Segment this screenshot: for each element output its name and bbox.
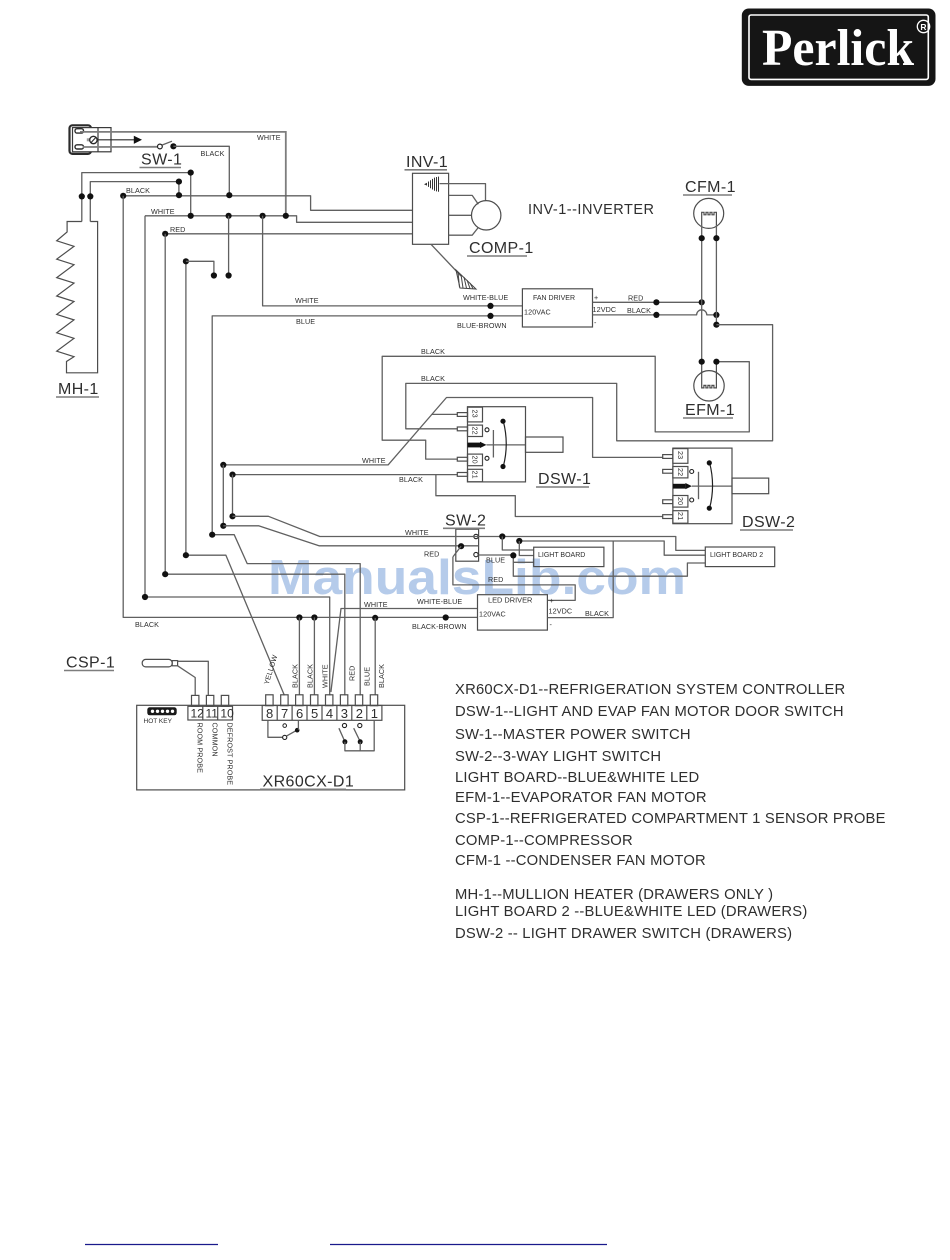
svg-text:DSW-1: DSW-1 <box>538 471 591 488</box>
svg-text:BLACK: BLACK <box>421 347 445 356</box>
wire long vertical red feed to controller pin 3 <box>165 234 345 696</box>
internal compressor switch pins 3-2-1 <box>339 720 374 751</box>
legend text <box>455 682 886 942</box>
svg-text:CFM-1 --CONDENSER FAN MOTOR: CFM-1 --CONDENSER FAN MOTOR <box>455 853 706 869</box>
svg-text:21: 21 <box>471 471 480 479</box>
sensor probe CSP-1 <box>142 659 208 695</box>
svg-text:DSW-2 -- LIGHT DRAWER SWITCH (: DSW-2 -- LIGHT DRAWER SWITCH (DRAWERS) <box>455 926 792 942</box>
svg-text:120VAC: 120VAC <box>524 308 551 317</box>
hatched arrow from INV-1 <box>431 244 476 289</box>
svg-text:BLACK: BLACK <box>627 306 651 315</box>
svg-text:BLUE: BLUE <box>362 667 371 686</box>
svg-text:RED: RED <box>628 294 643 303</box>
svg-text:LED DRIVER: LED DRIVER <box>488 596 532 605</box>
svg-text:LIGHT BOARD--BLUE&WHITE LED: LIGHT BOARD--BLUE&WHITE LED <box>455 770 699 786</box>
light switch SW-2 <box>456 529 479 561</box>
svg-text:1: 1 <box>371 706 378 721</box>
door switch DSW-1 <box>457 407 563 482</box>
svg-text:EFM-1: EFM-1 <box>685 402 735 419</box>
svg-text:BLACK: BLACK <box>305 664 314 688</box>
internal defrost switch pins 8-7-6 <box>268 720 300 739</box>
wire INV to COMP upper <box>449 195 479 204</box>
compressor COMP-1 <box>472 201 501 230</box>
svg-text:INV-1--INVERTER: INV-1--INVERTER <box>528 202 654 218</box>
wire BLUE from SW-2 to LIGHT BOARD and LIGHT BOARD 2 <box>478 555 705 576</box>
evaporator fan motor EFM-1 <box>694 359 724 401</box>
svg-text:7: 7 <box>281 706 288 721</box>
switch lever SW-2 <box>453 546 461 557</box>
wire branch white dot down into LIGHT BOARD <box>502 537 533 551</box>
power plug P1 <box>70 125 112 154</box>
terminal block 8..1 <box>262 695 382 721</box>
wire black loop CFM node to DSW-1 pin22 <box>406 325 773 441</box>
svg-text:WHITE: WHITE <box>405 528 429 537</box>
wire BLACK fan driver to CFM with hop <box>593 310 717 315</box>
wire stub with terminal dots <box>186 261 214 275</box>
svg-text:INV-1: INV-1 <box>406 154 448 171</box>
svg-text:SW-2: SW-2 <box>445 513 486 530</box>
svg-text:DSW-2: DSW-2 <box>742 514 795 531</box>
svg-text:BLACK: BLACK <box>399 475 423 484</box>
svg-text:8: 8 <box>266 706 273 721</box>
svg-text:+: + <box>550 596 554 605</box>
svg-text:DEFROST PROBE: DEFROST PROBE <box>225 723 234 786</box>
svg-text:HOT KEY: HOT KEY <box>144 718 173 725</box>
svg-text:FAN DRIVER: FAN DRIVER <box>533 295 575 302</box>
svg-text:LIGHT BOARD 2: LIGHT BOARD 2 <box>710 552 763 559</box>
svg-text:BLACK: BLACK <box>126 186 150 195</box>
svg-text:4: 4 <box>326 706 333 721</box>
svg-text:WHITE-BLUE: WHITE-BLUE <box>463 293 508 302</box>
door switch DSW-2 <box>663 448 769 524</box>
svg-text:WHITE: WHITE <box>151 207 175 216</box>
wire WHITE bus to INV-1 <box>145 216 413 223</box>
svg-text:COMP-1: COMP-1 <box>469 240 534 257</box>
svg-text:BLACK: BLACK <box>291 664 300 688</box>
svg-text:SW-2--3-WAY LIGHT SWITCH: SW-2--3-WAY LIGHT SWITCH <box>455 749 661 765</box>
svg-text:ROOM PROBE: ROOM PROBE <box>196 723 205 774</box>
wire WHITE from node column to DSW-1 pin23 and DSW-2 pin23 <box>223 398 663 465</box>
wire LED driver minus to light boards <box>547 541 613 618</box>
wire CFM right lead down <box>715 225 717 325</box>
fan driver module <box>522 289 592 327</box>
wire BLACK from SW-1 down to black bus <box>173 146 229 195</box>
bottom link underlines <box>85 1244 218 1246</box>
wire WHITE long run to FAN DRIVER <box>263 216 523 306</box>
wire INV to COMP top <box>440 184 486 201</box>
wire link vertical pairs <box>222 465 224 526</box>
svg-text:BLACK: BLACK <box>421 374 445 383</box>
wire stub from white bus <box>228 216 230 276</box>
svg-text:WHITE: WHITE <box>364 600 388 609</box>
svg-text:12VDC: 12VDC <box>593 305 617 314</box>
svg-text:CSP-1: CSP-1 <box>66 655 115 672</box>
wire second run to LIGHT BOARD 2 <box>519 541 705 555</box>
svg-text:MH-1--MULLION HEATER (DRAWERS: MH-1--MULLION HEATER (DRAWERS ONLY ) <box>455 887 773 903</box>
wire RED into SW-2 <box>223 526 478 546</box>
ground arrow from plug <box>97 136 142 144</box>
svg-text:CFM-1: CFM-1 <box>685 179 736 196</box>
wire DSW-1 pin23 stub to diagonal <box>432 413 457 415</box>
switch SW-1 <box>158 141 177 149</box>
heater MH-1 <box>57 222 98 373</box>
svg-text:23: 23 <box>676 451 685 459</box>
wire long vertical black feed to bottom bus <box>123 196 477 618</box>
svg-text:WHITE: WHITE <box>295 296 319 305</box>
terminal block 12 11 10 <box>188 695 234 785</box>
svg-text:SW-1--MASTER POWER SWITCH: SW-1--MASTER POWER SWITCH <box>455 727 691 743</box>
svg-text:BLACK: BLACK <box>135 620 159 629</box>
svg-text:BLACK: BLACK <box>377 664 386 688</box>
wire WHITE into SW-2 and on to LIGHT BOARD 2 <box>233 516 706 550</box>
Perlick logo <box>742 9 936 86</box>
wire INV to COMP mid <box>449 214 472 216</box>
wire BLACK to DSW-1 pin21 with branch to DSW-2 pin21 <box>233 474 458 476</box>
svg-text:SW-1: SW-1 <box>141 152 182 169</box>
svg-text:MH-1: MH-1 <box>58 381 99 398</box>
svg-text:DSW-1--LIGHT AND EVAP FAN MOTO: DSW-1--LIGHT AND EVAP FAN MOTOR DOOR SWI… <box>455 704 844 720</box>
svg-text:5: 5 <box>311 706 318 721</box>
svg-text:BLUE-BROWN: BLUE-BROWN <box>457 321 507 330</box>
wire INV to COMP lower <box>449 228 479 236</box>
svg-text:BLUE: BLUE <box>486 556 505 565</box>
LED light board <box>534 547 604 566</box>
pins <box>457 413 467 417</box>
svg-text:+: + <box>594 293 598 302</box>
condenser fan motor CFM-1 <box>694 198 724 228</box>
wire white-blue link from pin4 to LED driver <box>331 609 478 693</box>
common bar + arrow <box>468 443 481 448</box>
svg-text:RED: RED <box>348 666 357 681</box>
svg-text:LIGHT BOARD 2 --BLUE&WHITE LED: LIGHT BOARD 2 --BLUE&WHITE LED (DRAWERS) <box>455 904 807 920</box>
wire long vertical white feed to controller pin 4 <box>145 216 330 696</box>
wire RED to INV-1 <box>165 233 412 235</box>
svg-text:21: 21 <box>676 512 685 520</box>
svg-text:WHITE: WHITE <box>257 133 281 142</box>
svg-text:WHITE: WHITE <box>362 456 386 465</box>
svg-text:Perlick: Perlick <box>762 20 914 77</box>
LED driver module <box>478 595 548 630</box>
svg-text:XR60CX-D1: XR60CX-D1 <box>263 774 355 791</box>
svg-text:R: R <box>920 22 926 32</box>
svg-text:23: 23 <box>471 410 480 418</box>
svg-text:20: 20 <box>471 456 480 464</box>
svg-text:BLUE: BLUE <box>296 317 315 326</box>
wire MH-1 right lead loop <box>90 182 179 222</box>
wire BLUE long run from FAN DRIVER to controller pin 2 <box>212 316 522 696</box>
svg-text:20: 20 <box>676 497 685 505</box>
svg-text:RED: RED <box>488 575 503 584</box>
svg-text:10: 10 <box>220 707 234 721</box>
svg-text:12: 12 <box>191 707 205 721</box>
wire yellow feed to controller pin 7 <box>186 261 285 695</box>
svg-text:BLACK-BROWN: BLACK-BROWN <box>412 622 467 631</box>
svg-text:RED: RED <box>424 550 439 559</box>
wire WHITE from plug to node at x=285.8 <box>80 132 286 216</box>
svg-text:3: 3 <box>341 706 348 721</box>
node dots MH leads <box>79 193 85 199</box>
svg-text:11: 11 <box>206 707 219 721</box>
svg-text:LIGHT BOARD: LIGHT BOARD <box>538 552 585 559</box>
wire plug bottom to SW-1 <box>83 146 157 148</box>
wire BLACK bus to INV-1 <box>123 196 412 211</box>
svg-text:120VAC: 120VAC <box>479 610 506 619</box>
svg-text:6: 6 <box>296 706 303 721</box>
wire MH-1 left lead loop <box>82 173 191 222</box>
svg-text:BLACK: BLACK <box>201 149 225 158</box>
wire CFM left lead down to EFM left <box>701 225 703 362</box>
plunger <box>526 437 564 452</box>
svg-text:22: 22 <box>676 468 685 476</box>
wire black loop EFM right to DSW-1 pin20 <box>382 356 749 459</box>
svg-text:12VDC: 12VDC <box>549 607 573 616</box>
svg-text:EFM-1--EVAPORATOR FAN MOTOR: EFM-1--EVAPORATOR FAN MOTOR <box>455 790 707 806</box>
svg-text:COMMON: COMMON <box>210 723 219 757</box>
svg-text:WHITE: WHITE <box>320 664 329 688</box>
svg-text:2: 2 <box>356 706 363 721</box>
wire branch down into LIGHT BOARD <box>519 541 533 556</box>
svg-text:CSP-1--REFRIGERATED COMPARTMEN: CSP-1--REFRIGERATED COMPARTMENT 1 SENSOR… <box>455 811 886 827</box>
contacts <box>485 428 489 432</box>
svg-text:22: 22 <box>471 427 480 435</box>
svg-text:RED: RED <box>170 225 185 234</box>
svg-text:XR60CX-D1--REFRIGERATION SYSTE: XR60CX-D1--REFRIGERATION SYSTEM CONTROLL… <box>455 682 845 698</box>
inverter INV-1 <box>413 173 449 244</box>
svg-text:BLACK: BLACK <box>585 609 609 618</box>
HOT KEY connector <box>144 707 177 725</box>
wire RED fan driver to CFM <box>593 301 702 303</box>
LED light board 2 <box>705 547 774 567</box>
wire RED riser from SW-2 lever to LED driver plus <box>453 557 575 601</box>
svg-text:COMP-1--COMPRESSOR: COMP-1--COMPRESSOR <box>455 833 633 849</box>
controller XR60CX-D1 box <box>137 705 405 790</box>
svg-text:WHITE-BLUE: WHITE-BLUE <box>417 597 462 606</box>
